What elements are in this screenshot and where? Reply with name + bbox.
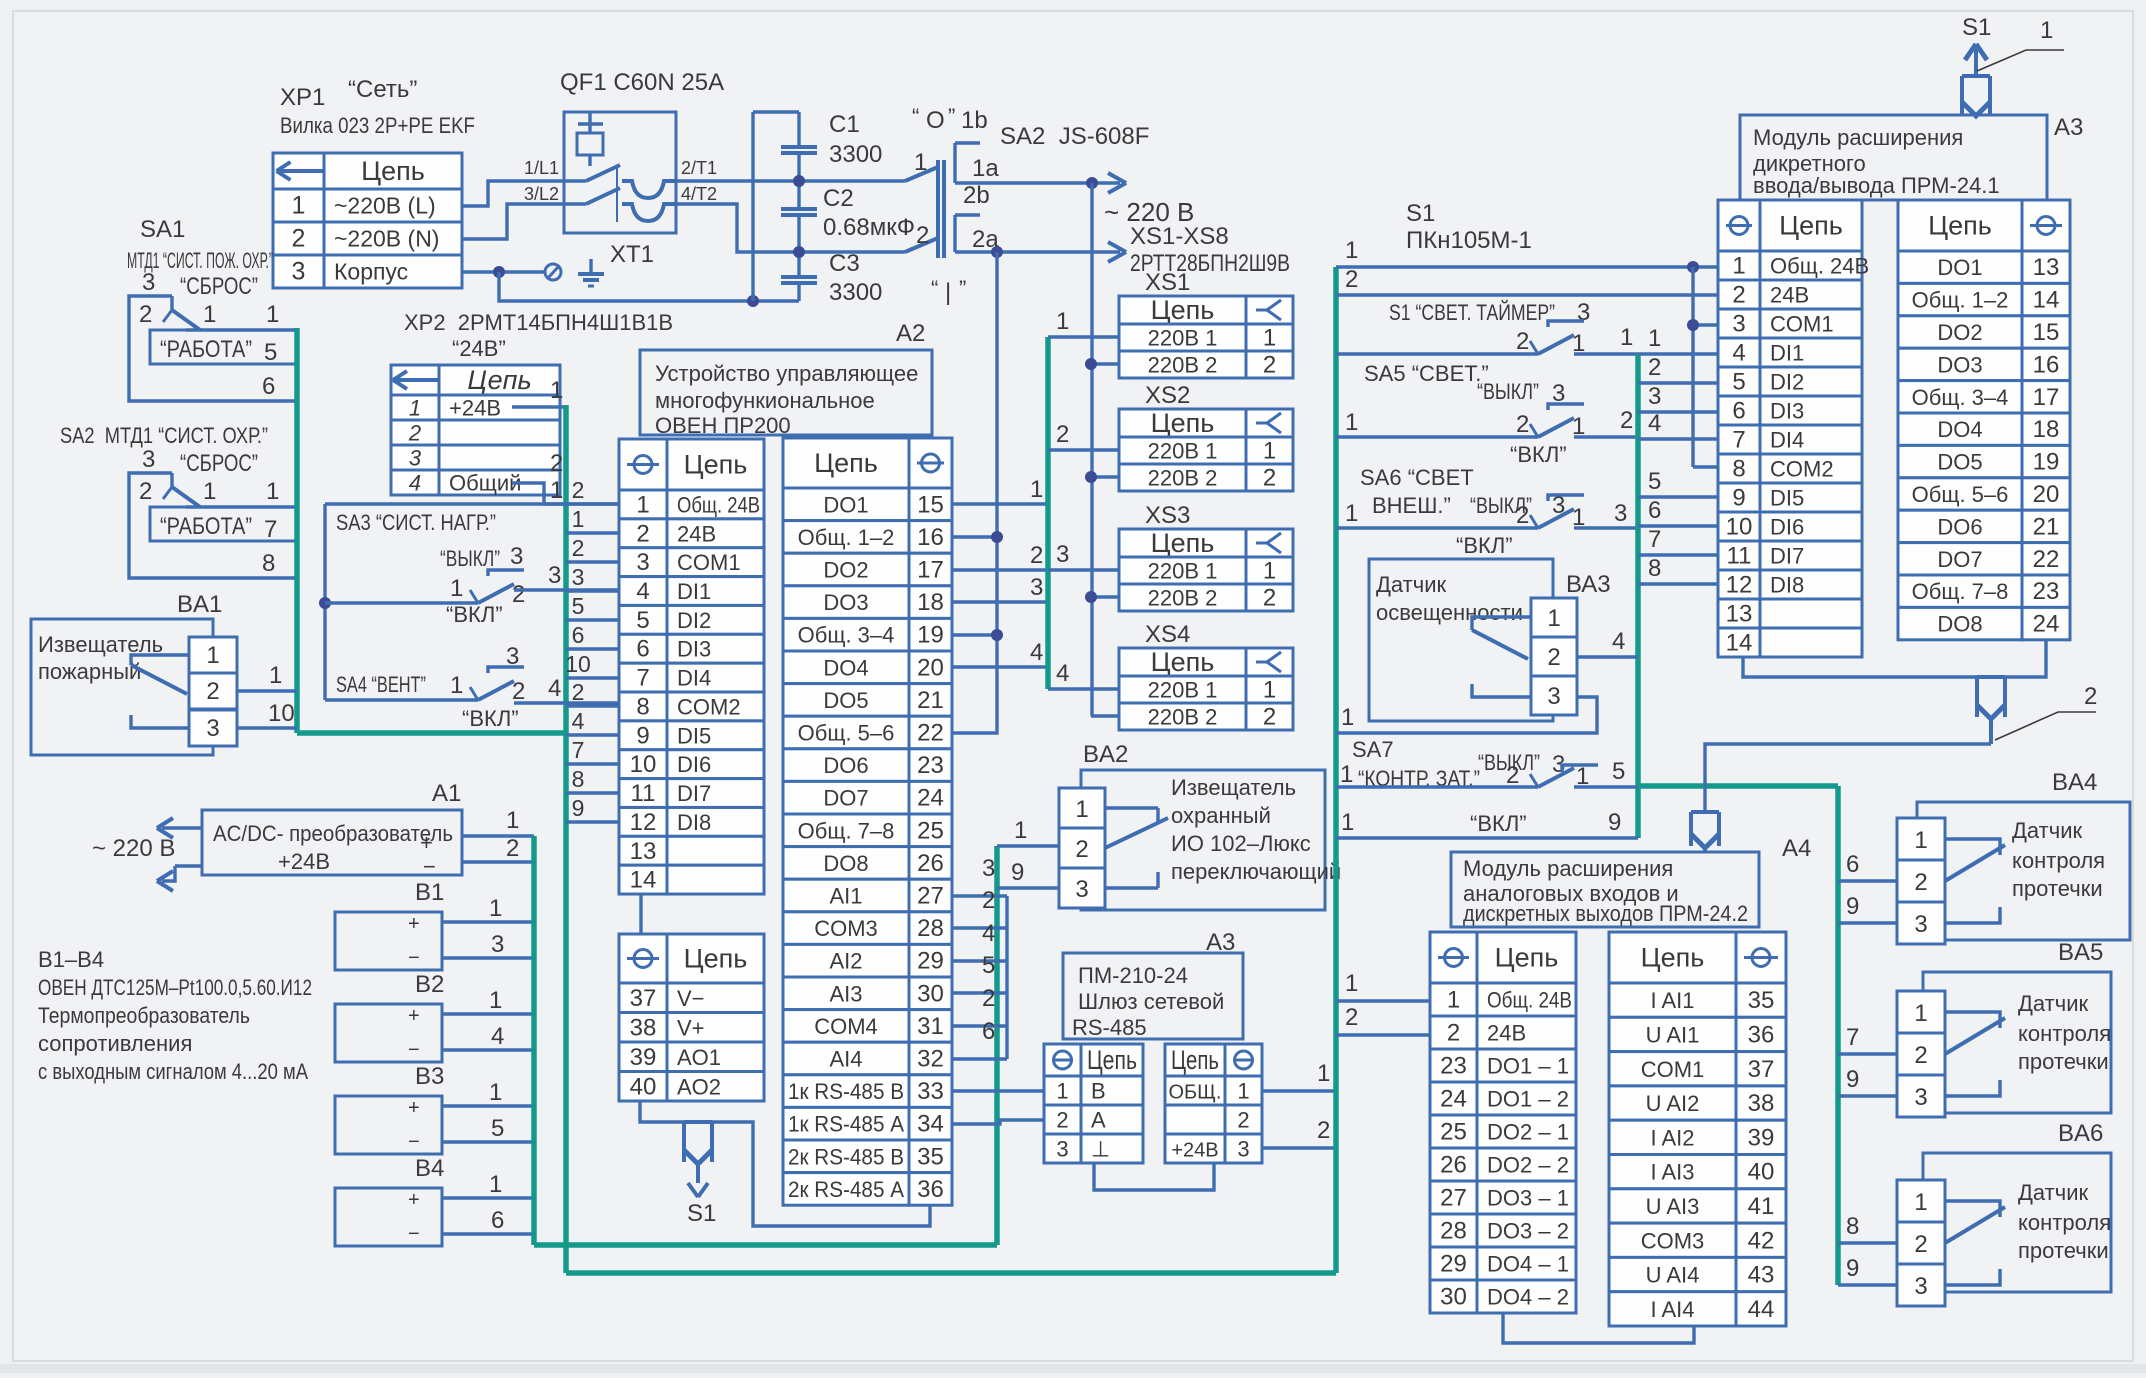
svg-text:2: 2 — [292, 225, 306, 253]
svg-text:ввода/вывода ПРМ-24.1: ввода/вывода ПРМ-24.1 — [1753, 173, 2000, 198]
svg-text:2: 2 — [1914, 869, 1927, 896]
svg-text:DI2: DI2 — [1770, 370, 1804, 395]
svg-text:2: 2 — [1263, 704, 1276, 731]
svg-text:5: 5 — [572, 593, 585, 619]
svg-text:2: 2 — [1914, 1042, 1927, 1069]
svg-text:DO3 – 2: DO3 – 2 — [1487, 1219, 1569, 1244]
svg-text:1: 1 — [506, 807, 519, 834]
svg-text:В1: В1 — [415, 879, 444, 906]
svg-text:2: 2 — [572, 679, 585, 705]
svg-text:2: 2 — [1620, 407, 1633, 434]
svg-text:1/L1: 1/L1 — [524, 158, 559, 178]
svg-text:Датчик: Датчик — [2018, 991, 2088, 1016]
svg-text:2: 2 — [1263, 465, 1276, 492]
svg-text:3: 3 — [982, 855, 995, 882]
svg-text:“ВКЛ”: “ВКЛ” — [1456, 533, 1513, 558]
svg-text:3: 3 — [1732, 311, 1745, 338]
svg-text:1: 1 — [292, 192, 306, 220]
svg-text:охранный: охранный — [1171, 803, 1271, 828]
svg-text:16: 16 — [2033, 351, 2060, 378]
svg-text:21: 21 — [2033, 513, 2060, 540]
svg-text:DO4 – 2: DO4 – 2 — [1487, 1285, 1569, 1310]
svg-text:13: 13 — [1726, 601, 1753, 628]
svg-text:DO8: DO8 — [823, 851, 868, 876]
svg-text:6: 6 — [1648, 497, 1661, 524]
svg-text:Датчик: Датчик — [1376, 572, 1446, 597]
svg-text:9: 9 — [1608, 809, 1621, 836]
svg-text:DO5: DO5 — [1937, 450, 1982, 475]
svg-text:2: 2 — [506, 835, 519, 862]
svg-text:6: 6 — [491, 1207, 504, 1234]
svg-text:А: А — [1091, 1108, 1106, 1133]
svg-text:2к RS-485 В: 2к RS-485 В — [788, 1144, 904, 1169]
svg-text:1: 1 — [1263, 325, 1276, 352]
svg-text:DI8: DI8 — [1770, 573, 1804, 598]
svg-text:Цепь: Цепь — [1087, 1045, 1137, 1075]
svg-text:DO7: DO7 — [823, 786, 868, 811]
svg-text:XS1: XS1 — [1145, 269, 1190, 296]
svg-text:14: 14 — [1726, 630, 1753, 657]
svg-text:1: 1 — [1263, 438, 1276, 465]
svg-text:3: 3 — [1056, 1137, 1068, 1162]
svg-text:12: 12 — [1726, 572, 1753, 599]
svg-text:DO1 – 1: DO1 – 1 — [1487, 1054, 1569, 1079]
svg-text:AI4: AI4 — [829, 1047, 862, 1072]
svg-text:DO6: DO6 — [1937, 514, 1982, 539]
svg-text:3: 3 — [510, 543, 523, 570]
svg-text:1: 1 — [489, 1171, 502, 1198]
svg-text:1: 1 — [1345, 409, 1358, 436]
svg-text:COM4: COM4 — [814, 1014, 878, 1039]
svg-text:6: 6 — [262, 373, 275, 400]
svg-text:27: 27 — [1440, 1185, 1467, 1212]
svg-text:2b: 2b — [963, 182, 990, 209]
svg-text:Общ. 3–4: Общ. 3–4 — [798, 623, 895, 648]
svg-text:В2: В2 — [415, 971, 444, 998]
svg-text:24: 24 — [1440, 1086, 1467, 1113]
svg-text:переключающий: переключающий — [1171, 859, 1341, 884]
svg-text:Цепь: Цепь — [361, 156, 425, 186]
svg-text:Устройство управляющее: Устройство управляющее — [655, 361, 918, 386]
svg-text:А3: А3 — [2054, 114, 2083, 141]
svg-text:24: 24 — [917, 785, 944, 812]
svg-text:3: 3 — [409, 446, 422, 471]
svg-text:U AI3: U AI3 — [1646, 1194, 1700, 1219]
svg-text:1: 1 — [550, 477, 563, 504]
svg-text:Общ. 7–8: Общ. 7–8 — [1912, 579, 2009, 604]
svg-text:I AI3: I AI3 — [1650, 1160, 1694, 1185]
svg-text:⊥: ⊥ — [1091, 1137, 1110, 1162]
svg-text:11: 11 — [631, 780, 656, 807]
svg-text:AI2: AI2 — [829, 949, 862, 974]
svg-text:1: 1 — [1341, 704, 1354, 731]
svg-text:BA5: BA5 — [2058, 939, 2103, 966]
svg-text:9: 9 — [1846, 1255, 1859, 1282]
svg-text:Модуль расширения: Модуль расширения — [1753, 125, 1963, 150]
svg-text:−: − — [408, 1039, 420, 1061]
svg-text:3: 3 — [1056, 541, 1069, 568]
svg-text:−: − — [408, 1223, 420, 1245]
svg-text:0.68мкФ: 0.68мкФ — [823, 214, 915, 241]
svg-text:DO6: DO6 — [823, 753, 868, 778]
svg-text:5: 5 — [264, 339, 277, 366]
svg-text:BA6: BA6 — [2058, 1120, 2103, 1147]
svg-text:39: 39 — [630, 1044, 657, 1071]
svg-text:C3: C3 — [829, 250, 860, 277]
svg-text:DI5: DI5 — [677, 723, 711, 748]
svg-text:32: 32 — [917, 1046, 944, 1073]
svg-text:2к RS-485 А: 2к RS-485 А — [788, 1177, 904, 1202]
svg-text:“ВКЛ”: “ВКЛ” — [1470, 811, 1527, 836]
svg-text:COM3: COM3 — [814, 916, 878, 941]
svg-text:8: 8 — [1732, 456, 1745, 483]
svg-text:1: 1 — [1263, 558, 1276, 585]
svg-text:2: 2 — [206, 678, 219, 705]
svg-text:6: 6 — [1732, 398, 1745, 425]
svg-text:220В 2: 220В 2 — [1148, 705, 1218, 730]
svg-text:2: 2 — [1516, 328, 1529, 355]
svg-text:6: 6 — [1846, 851, 1859, 878]
svg-text:Общ. 7–8: Общ. 7–8 — [798, 818, 895, 843]
svg-text:3: 3 — [506, 643, 519, 670]
svg-text:DO2 – 1: DO2 – 1 — [1487, 1120, 1569, 1145]
svg-text:DI7: DI7 — [1770, 544, 1804, 569]
svg-text:Общ. 24В: Общ. 24В — [1770, 254, 1869, 279]
svg-text:3: 3 — [1237, 1137, 1249, 1162]
svg-text:В: В — [1091, 1079, 1106, 1104]
svg-text:ОБЩ.: ОБЩ. — [1169, 1082, 1222, 1104]
svg-text:3: 3 — [142, 269, 155, 296]
svg-text:4: 4 — [1732, 340, 1745, 367]
svg-text:24В: 24В — [1770, 283, 1809, 308]
svg-text:7: 7 — [1648, 526, 1661, 553]
svg-text:“24В”: “24В” — [452, 336, 506, 361]
svg-text:2: 2 — [916, 222, 929, 249]
svg-text:BA4: BA4 — [2052, 769, 2097, 796]
svg-text:4: 4 — [409, 471, 421, 496]
svg-text:220В 1: 220В 1 — [1148, 439, 1218, 464]
svg-text:8: 8 — [1648, 555, 1661, 582]
svg-text:~ 220 В: ~ 220 В — [92, 835, 175, 862]
svg-text:24В: 24В — [677, 521, 716, 546]
svg-text:ПКн105М-1: ПКн105М-1 — [1406, 227, 1532, 254]
svg-text:3: 3 — [636, 549, 649, 576]
svg-text:11: 11 — [1727, 543, 1752, 570]
svg-text:+: + — [408, 1097, 420, 1119]
svg-text:13: 13 — [630, 838, 657, 865]
svg-text:2: 2 — [1506, 762, 1519, 789]
svg-text:1: 1 — [266, 301, 279, 328]
svg-text:Корпус: Корпус — [334, 259, 408, 285]
svg-text:21: 21 — [917, 687, 944, 714]
svg-text:А2: А2 — [896, 320, 925, 347]
svg-text:SA5 “СВЕТ.”: SA5 “СВЕТ.” — [1364, 361, 1489, 386]
svg-text:“ВЫКЛ”: “ВЫКЛ” — [1477, 379, 1539, 404]
svg-text:220В 1: 220В 1 — [1148, 559, 1218, 584]
svg-text:1: 1 — [1075, 796, 1088, 823]
svg-text:XT1: XT1 — [610, 241, 654, 268]
svg-text:3300: 3300 — [829, 279, 882, 306]
svg-text:1: 1 — [1263, 677, 1276, 704]
svg-text:Цепь: Цепь — [1779, 211, 1843, 241]
svg-text:“РАБОТА”: “РАБОТА” — [160, 336, 252, 363]
svg-text:38: 38 — [1748, 1090, 1775, 1117]
svg-text:2: 2 — [1648, 354, 1661, 381]
svg-text:20: 20 — [917, 654, 944, 681]
svg-text:DO4: DO4 — [1937, 417, 1982, 442]
svg-text:DI5: DI5 — [1770, 486, 1804, 511]
svg-text:1: 1 — [1620, 324, 1633, 351]
svg-text:3300: 3300 — [829, 141, 882, 168]
svg-text:DO3: DO3 — [1937, 352, 1982, 377]
svg-text:2: 2 — [512, 678, 525, 705]
svg-text:4: 4 — [1056, 660, 1069, 687]
svg-text:10: 10 — [1726, 514, 1753, 541]
svg-text:9: 9 — [572, 795, 585, 821]
svg-text:DO2 – 2: DO2 – 2 — [1487, 1153, 1569, 1178]
svg-text:8: 8 — [1846, 1213, 1859, 1240]
svg-text:1: 1 — [1732, 253, 1745, 280]
svg-text:2: 2 — [1317, 1117, 1330, 1144]
svg-text:XP2 2РМТ14БПН4Ш1В1В: XP2 2РМТ14БПН4Ш1В1В — [404, 310, 673, 335]
svg-text:DO5: DO5 — [823, 688, 868, 713]
svg-text:3: 3 — [206, 715, 219, 742]
svg-text:14: 14 — [2033, 287, 2060, 314]
svg-text:9: 9 — [636, 722, 649, 749]
svg-text:DI1: DI1 — [1770, 341, 1804, 366]
svg-text:Цепь: Цепь — [1151, 528, 1215, 558]
svg-text:Общ. 5–6: Общ. 5–6 — [798, 721, 895, 746]
svg-text:DI1: DI1 — [677, 579, 711, 604]
svg-text:U AI2: U AI2 — [1646, 1091, 1700, 1116]
svg-text:1: 1 — [409, 396, 421, 421]
svg-text:1: 1 — [572, 506, 585, 532]
svg-text:1: 1 — [206, 642, 219, 669]
svg-text:10: 10 — [630, 751, 657, 778]
svg-text:2: 2 — [1263, 585, 1276, 612]
svg-text:Общ. 5–6: Общ. 5–6 — [1912, 482, 2009, 507]
svg-text:SA2 JS-608F: SA2 JS-608F — [1000, 123, 1149, 150]
svg-text:Общ. 1–2: Общ. 1–2 — [1912, 288, 2009, 313]
svg-text:1: 1 — [1345, 500, 1358, 527]
svg-text:2: 2 — [572, 477, 585, 503]
svg-text:4: 4 — [491, 1023, 504, 1050]
svg-text:AO1: AO1 — [677, 1045, 721, 1070]
svg-text:1: 1 — [450, 575, 463, 602]
svg-text:9: 9 — [1846, 893, 1859, 920]
svg-text:2: 2 — [1345, 266, 1358, 293]
svg-text:“ВКЛ”: “ВКЛ” — [462, 706, 519, 731]
svg-text:Общ. 24В: Общ. 24В — [1487, 988, 1572, 1013]
svg-text:1: 1 — [550, 377, 563, 404]
svg-text:+24В: +24В — [1171, 1140, 1218, 1162]
svg-text:DO2: DO2 — [823, 558, 868, 583]
svg-text:1: 1 — [450, 672, 463, 699]
svg-text:2: 2 — [1263, 352, 1276, 379]
svg-text:1: 1 — [203, 301, 216, 328]
svg-text:2: 2 — [1237, 1108, 1249, 1133]
svg-text:2: 2 — [1447, 1020, 1460, 1047]
svg-text:220В 2: 220В 2 — [1148, 586, 1218, 611]
svg-text:4: 4 — [636, 578, 649, 605]
svg-text:Шлюз сетевой: Шлюз сетевой — [1078, 989, 1224, 1014]
svg-text:C2: C2 — [823, 185, 854, 212]
svg-text:33: 33 — [917, 1078, 944, 1105]
svg-text:Цепь: Цепь — [684, 944, 748, 974]
svg-text:5: 5 — [491, 1115, 504, 1142]
svg-text:BA1: BA1 — [177, 591, 222, 618]
svg-text:36: 36 — [1748, 1021, 1775, 1048]
svg-text:5: 5 — [1732, 369, 1745, 396]
svg-text:7: 7 — [636, 665, 649, 692]
svg-text:3: 3 — [1914, 1084, 1927, 1111]
svg-text:3: 3 — [1075, 876, 1088, 903]
svg-text:V−: V− — [677, 986, 705, 1011]
svg-text:“РАБОТА”: “РАБОТА” — [160, 513, 252, 540]
svg-text:220В 1: 220В 1 — [1148, 326, 1218, 351]
svg-text:19: 19 — [917, 622, 944, 649]
svg-text:ПМ-210-24: ПМ-210-24 — [1078, 963, 1188, 988]
svg-text:ОВЕН ПР200: ОВЕН ПР200 — [655, 413, 791, 438]
svg-text:3/L2: 3/L2 — [524, 184, 559, 204]
svg-text:I AI1: I AI1 — [1650, 988, 1694, 1013]
svg-text:~220В (L): ~220В (L) — [334, 193, 436, 219]
svg-text:Цепь: Цепь — [1151, 647, 1215, 677]
svg-text:4: 4 — [1030, 639, 1043, 666]
svg-text:23: 23 — [1440, 1053, 1467, 1080]
svg-text:1: 1 — [1317, 1060, 1330, 1087]
svg-text:42: 42 — [1748, 1227, 1775, 1254]
svg-text:COM3: COM3 — [1641, 1228, 1705, 1253]
svg-text:контроля: контроля — [2018, 1021, 2111, 1046]
svg-text:2: 2 — [1516, 411, 1529, 438]
svg-text:29: 29 — [917, 948, 944, 975]
svg-text:27: 27 — [917, 883, 944, 910]
svg-text:31: 31 — [917, 1013, 944, 1040]
svg-text:2: 2 — [1516, 502, 1529, 529]
svg-text:О: О — [926, 107, 945, 134]
svg-text:9: 9 — [1846, 1066, 1859, 1093]
svg-text:22: 22 — [917, 720, 944, 747]
svg-text:25: 25 — [1440, 1119, 1467, 1146]
svg-text:+24В: +24В — [449, 396, 501, 421]
svg-text:|: | — [945, 279, 951, 306]
svg-text:1: 1 — [269, 662, 282, 689]
svg-text:12: 12 — [630, 809, 657, 836]
svg-text:1: 1 — [1237, 1079, 1249, 1104]
svg-text:10: 10 — [565, 651, 591, 677]
svg-text:“: “ — [931, 276, 938, 301]
svg-text:19: 19 — [2033, 449, 2060, 476]
svg-text:V+: V+ — [677, 1015, 705, 1040]
svg-text:37: 37 — [630, 985, 657, 1012]
svg-text:−: − — [423, 854, 436, 879]
svg-text:+: + — [408, 913, 420, 935]
svg-text:DI3: DI3 — [1770, 399, 1804, 424]
svg-text:В3: В3 — [415, 1063, 444, 1090]
svg-text:1: 1 — [914, 149, 927, 176]
svg-text:3: 3 — [548, 562, 561, 589]
svg-text:2: 2 — [982, 887, 995, 914]
svg-text:DI7: DI7 — [677, 781, 711, 806]
svg-text:Вилка 023 2Р+РЕ EKF: Вилка 023 2Р+РЕ EKF — [280, 113, 475, 138]
svg-text:протечки: протечки — [2018, 1049, 2109, 1074]
svg-text:1: 1 — [1345, 970, 1358, 997]
svg-text:XS2: XS2 — [1145, 382, 1190, 409]
svg-text:4: 4 — [1612, 628, 1625, 655]
svg-text:1: 1 — [1030, 476, 1043, 503]
svg-text:освещенности: освещенности — [1376, 600, 1523, 625]
svg-text:17: 17 — [917, 557, 944, 584]
svg-text:28: 28 — [1440, 1218, 1467, 1245]
svg-text:DO1: DO1 — [823, 492, 868, 517]
svg-text:3: 3 — [292, 258, 306, 286]
svg-text:40: 40 — [630, 1073, 657, 1100]
svg-text:3: 3 — [142, 446, 155, 473]
svg-text:C1: C1 — [829, 111, 860, 138]
svg-text:DI6: DI6 — [1770, 515, 1804, 540]
svg-text:COM1: COM1 — [1641, 1057, 1705, 1082]
svg-text:15: 15 — [917, 491, 944, 518]
svg-text:Цепь: Цепь — [684, 450, 748, 480]
svg-text:Термопреобразователь: Термопреобразователь — [38, 1003, 250, 1028]
svg-text:13: 13 — [2033, 254, 2060, 281]
svg-text:1: 1 — [2040, 17, 2053, 44]
svg-text:3: 3 — [491, 931, 504, 958]
svg-text:30: 30 — [917, 980, 944, 1007]
svg-text:COM2: COM2 — [677, 694, 741, 719]
svg-text:контроля: контроля — [2012, 848, 2105, 873]
svg-text:DO3: DO3 — [823, 590, 868, 615]
svg-text:Цепь: Цепь — [1928, 211, 1992, 241]
svg-text:2: 2 — [512, 581, 525, 608]
svg-text:7: 7 — [1846, 1024, 1859, 1051]
svg-text:DO2: DO2 — [1937, 320, 1982, 345]
svg-text:23: 23 — [2033, 578, 2060, 605]
svg-text:44: 44 — [1748, 1296, 1775, 1323]
svg-text:ИО 102–Люкс: ИО 102–Люкс — [1171, 831, 1311, 856]
svg-text:40: 40 — [1748, 1159, 1775, 1186]
svg-text:COM1: COM1 — [677, 550, 741, 575]
svg-text:1к RS-485 В: 1к RS-485 В — [788, 1079, 904, 1104]
svg-text:дискретных выходов ПРМ-24.2: дискретных выходов ПРМ-24.2 — [1463, 901, 1748, 926]
svg-text:4: 4 — [572, 708, 585, 734]
svg-text:DI8: DI8 — [677, 810, 711, 835]
svg-text:контроля: контроля — [2018, 1210, 2111, 1235]
svg-text:Общ. 3–4: Общ. 3–4 — [1912, 385, 2009, 410]
svg-text:220В 2: 220В 2 — [1148, 466, 1218, 491]
svg-text:7: 7 — [1732, 427, 1745, 454]
svg-text:2: 2 — [139, 478, 152, 505]
svg-text:BA2: BA2 — [1083, 741, 1128, 768]
svg-text:Цепь: Цепь — [467, 365, 531, 395]
svg-text:1: 1 — [1914, 827, 1927, 854]
svg-text:Извещатель: Извещатель — [1171, 775, 1296, 800]
svg-text:1: 1 — [266, 478, 279, 505]
svg-text:3: 3 — [1547, 683, 1560, 710]
svg-text:COM1: COM1 — [1770, 312, 1834, 337]
svg-text:AC/DC- преобразователь: AC/DC- преобразователь — [213, 821, 453, 846]
svg-text:2: 2 — [1914, 1231, 1927, 1258]
svg-text:1a: 1a — [972, 155, 999, 182]
svg-text:2: 2 — [1345, 1004, 1358, 1031]
svg-text:DO1 – 2: DO1 – 2 — [1487, 1087, 1569, 1112]
svg-text:S1: S1 — [1406, 200, 1435, 227]
svg-text:1: 1 — [636, 491, 649, 518]
svg-text:S1 “СВЕТ. ТАЙМЕР”: S1 “СВЕТ. ТАЙМЕР” — [1389, 300, 1555, 325]
svg-text:220В 2: 220В 2 — [1148, 353, 1218, 378]
svg-text:AO2: AO2 — [677, 1074, 721, 1099]
